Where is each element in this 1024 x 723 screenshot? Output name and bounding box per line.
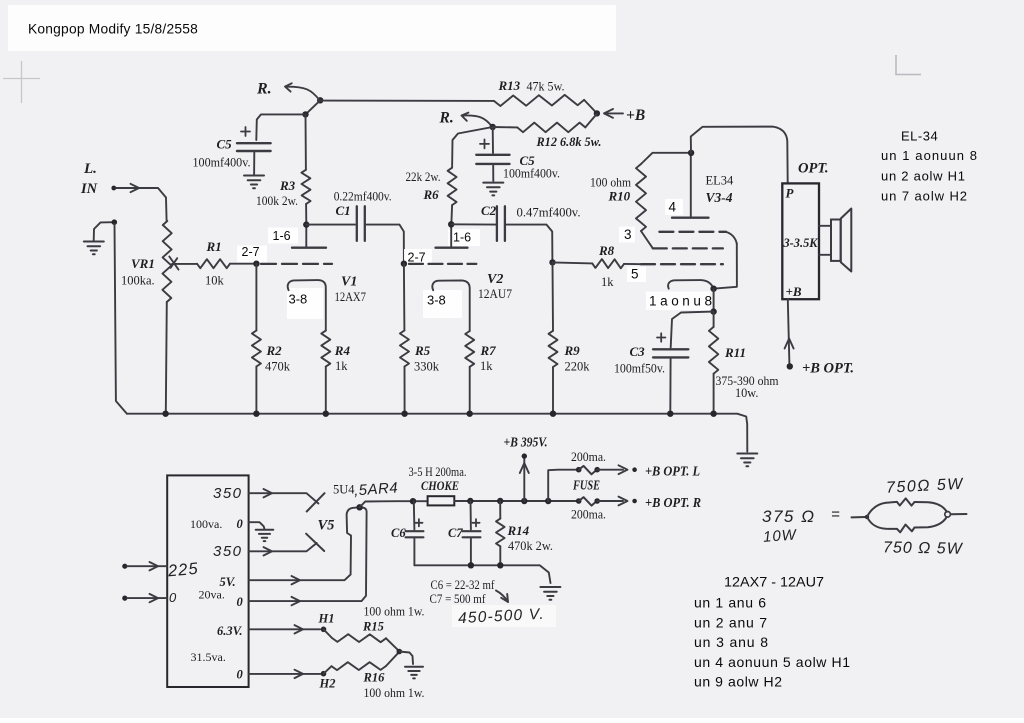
svg-text:1-6: 1-6	[273, 229, 291, 243]
svg-text:10k: 10k	[205, 274, 225, 288]
svg-text:1-6: 1-6	[453, 231, 471, 245]
wire R11 top lead	[713, 312, 715, 327]
svg-text:C3: C3	[630, 344, 646, 359]
wire C5a top	[256, 114, 303, 140]
node R14 bottom	[497, 562, 503, 568]
arrow 0 heater	[295, 670, 304, 678]
svg-text:12AX7 - 12AU7: 12AX7 - 12AU7	[724, 574, 824, 590]
corner mark top right	[896, 55, 921, 75]
V1 cathode	[288, 280, 326, 331]
svg-text:0: 0	[237, 595, 244, 609]
svg-text:R.: R.	[439, 110, 454, 127]
wire H2 to R16	[324, 666, 332, 674]
wire B+ to choke	[360, 501, 427, 507]
node heater ground junction	[397, 649, 403, 655]
svg-text:470k: 470k	[265, 360, 291, 374]
svg-text:350: 350	[213, 543, 243, 560]
node EL34 cathode	[710, 286, 716, 292]
wire 0 20va to B+ node	[249, 507, 367, 601]
wire R12 left lead	[493, 126, 518, 128]
svg-text:R11: R11	[724, 345, 746, 360]
plus C3	[657, 333, 665, 341]
resistor R15	[332, 634, 386, 642]
capacitor C2	[497, 206, 505, 241]
svg-text:EL34: EL34	[706, 174, 735, 188]
node fuse branch	[545, 498, 551, 504]
svg-text:V3-4: V3-4	[706, 190, 733, 205]
svg-text:OPT.: OPT.	[798, 161, 828, 177]
V5 plate stroke top	[307, 493, 325, 511]
node V1 plate	[303, 221, 309, 227]
svg-text:350: 350	[213, 485, 243, 502]
svg-text:3-8: 3-8	[289, 292, 308, 307]
svg-text:un 9 aolw H2: un 9 aolw H2	[694, 674, 782, 690]
svg-text:375 Ω: 375 Ω	[762, 507, 816, 526]
wire R14 bottom lead	[499, 546, 501, 565]
plus C5 right	[480, 139, 489, 148]
wire VR1 bottom lead	[166, 302, 167, 413]
svg-text:2-7: 2-7	[242, 245, 260, 259]
svg-text:10W: 10W	[762, 526, 798, 545]
svg-text:750 Ω 5W: 750 Ω 5W	[883, 539, 964, 557]
wire R6 top lead	[452, 127, 493, 168]
feedback arrow left head	[285, 83, 292, 91]
resistor R7	[465, 331, 474, 367]
V1 plate bar	[292, 247, 326, 249]
wire 0 100va	[249, 522, 265, 528]
svg-text:C7: C7	[448, 526, 463, 540]
wire C7 bottom lead	[470, 539, 472, 566]
wire EL34 plate to OPT	[691, 127, 788, 183]
resistor R9	[549, 331, 558, 367]
white patch 1-8	[646, 292, 710, 311]
svg-text:R10: R10	[608, 189, 631, 204]
rail junction VR1	[162, 411, 168, 417]
white patch 450-500	[452, 605, 556, 627]
wire R9 top lead	[552, 262, 555, 330]
rail junction C3	[667, 411, 673, 417]
white patch 1-6 V2	[448, 229, 480, 246]
svg-text:R12 6.8k 5w.: R12 6.8k 5w.	[536, 135, 602, 149]
node +B395 terminal	[522, 453, 527, 458]
arrow 5V winding	[292, 576, 301, 584]
fuse R right dot	[594, 498, 600, 504]
svg-text:R14: R14	[507, 523, 530, 538]
sketch top branch right	[915, 502, 947, 512]
wire V2 grid dashed	[409, 263, 476, 265]
V2 cathode	[432, 280, 469, 331]
resistor R2	[252, 331, 261, 367]
rail junction R2	[253, 411, 259, 417]
svg-text:100va.: 100va.	[190, 517, 222, 531]
wire R3 bottom lead	[305, 204, 307, 225]
resistor R8	[592, 259, 624, 268]
node V2 plate	[448, 221, 454, 227]
arrow 0 20va winding	[292, 597, 301, 605]
wire 0 heater	[249, 673, 321, 675]
svg-text:5U4: 5U4	[333, 483, 355, 497]
node EL34 plate/OPT	[688, 150, 694, 156]
node +B OPT terminal	[787, 363, 793, 369]
wire R15 to junction	[386, 638, 399, 651]
wire fuse branch riser	[548, 470, 576, 501]
node C7 bottom	[468, 562, 474, 568]
wire C1 to V2 grid	[367, 225, 404, 262]
wire +B395 riser	[523, 458, 525, 501]
svg-text:100 ohm 1w.: 100 ohm 1w.	[364, 605, 425, 619]
note arrow	[496, 591, 508, 603]
sketch bottom branch	[867, 517, 897, 529]
svg-text:C6 = 22-32 mf: C6 = 22-32 mf	[431, 578, 496, 592]
sketch resistor bottom	[897, 525, 915, 533]
wire V2 plate lead	[450, 226, 452, 247]
svg-text:100 ohm 1w.: 100 ohm 1w.	[364, 686, 425, 700]
arrow 350 bottom	[264, 547, 273, 555]
wire H1 to R15	[324, 629, 333, 638]
capacitor C3	[653, 349, 688, 357]
wire R4 bottom lead	[325, 367, 327, 413]
svg-text:0: 0	[237, 517, 244, 531]
speaker driver box	[831, 220, 841, 261]
svg-text:220k: 220k	[565, 360, 591, 374]
node +B OPT R terminal	[632, 499, 637, 504]
svg-text:R9: R9	[564, 343, 581, 358]
node R3/C5	[302, 111, 308, 117]
wire +B arrow tail	[607, 112, 623, 114]
rail junction R11	[710, 411, 716, 417]
plus C6	[415, 519, 422, 526]
EL34 grid1 right curve	[726, 232, 737, 244]
wire VR1 wiper	[172, 263, 197, 265]
svg-text:un 3 anu 8: un 3 anu 8	[694, 634, 768, 650]
wire C3 bottom lead	[669, 359, 671, 413]
wire input to VR1 top	[116, 188, 167, 221]
wire 6.3V	[249, 628, 320, 630]
svg-text:un 1 aonuun 8: un 1 aonuun 8	[881, 148, 977, 163]
arrow mains 0	[150, 594, 159, 602]
wire C5b top lead	[492, 127, 494, 153]
wire 5V to B+ node	[249, 507, 358, 580]
feedback arrow left	[286, 87, 320, 100]
svg-text:R4: R4	[334, 343, 351, 358]
node mains input 225	[122, 564, 127, 569]
svg-text:R.: R.	[256, 81, 272, 98]
svg-text:un 7 aolw H2: un 7 aolw H2	[881, 189, 967, 204]
bottom ground rail	[127, 414, 747, 452]
arrow +B OPT up	[785, 339, 794, 349]
wire V2 plate to C2	[451, 223, 495, 225]
svg-text:20va.: 20va.	[199, 588, 225, 602]
svg-text:R1: R1	[206, 239, 222, 254]
wire R16 to junction	[386, 652, 399, 666]
wire C6 top lead	[413, 501, 416, 529]
node R9/R8	[549, 259, 555, 265]
EL34 grid1 dashed	[659, 231, 726, 233]
node top rail left	[317, 97, 323, 103]
wire R11 bottom lead	[713, 374, 715, 413]
rail junction R7	[467, 411, 473, 417]
svg-text:100k 2w.: 100k 2w.	[256, 194, 298, 208]
wire choke to fuse rail	[454, 500, 576, 502]
wire C5b to ground	[492, 166, 494, 182]
wire 350 top to V5	[249, 493, 319, 503]
svg-text:+B: +B	[786, 284, 802, 299]
white patch 5	[627, 267, 646, 283]
svg-text:10w.: 10w.	[735, 386, 758, 400]
svg-text:+B OPT. R: +B OPT. R	[645, 495, 701, 510]
svg-text:H1: H1	[318, 612, 335, 626]
note arrow head	[501, 594, 508, 602]
white patch 4	[665, 199, 683, 215]
svg-text:VR1: VR1	[131, 256, 155, 271]
fuse R element	[579, 497, 597, 505]
arrow on input wire	[131, 184, 140, 192]
svg-text:0.47mf400v.: 0.47mf400v.	[517, 206, 581, 220]
node +B	[594, 110, 600, 116]
wire fuse R to terminal	[597, 500, 623, 502]
svg-text:3-5 H 200ma.: 3-5 H 200ma.	[409, 465, 467, 479]
white patch 2-7 V1	[237, 246, 267, 263]
wire R3 top lead	[305, 114, 307, 169]
svg-text:2-7: 2-7	[408, 251, 426, 265]
svg-text:330k: 330k	[414, 360, 440, 374]
svg-text:1k: 1k	[601, 275, 614, 289]
wire cathode down	[713, 289, 715, 312]
white patch 3	[619, 227, 635, 243]
svg-text:un 2 anu 7: un 2 anu 7	[694, 614, 767, 630]
wire R8 left lead	[553, 262, 593, 263]
svg-text:+B 395V.: +B 395V.	[504, 435, 548, 450]
wire R8 to EL34 grid	[624, 263, 641, 265]
wire R2 bottom lead	[255, 367, 257, 414]
arrow 6.3V	[295, 625, 304, 633]
arrow +B395 up	[520, 463, 529, 473]
wire V1 grid resistor lead	[255, 264, 257, 331]
resistor R3	[301, 170, 310, 204]
EL34 grid2 dashed	[653, 247, 723, 249]
ground transformer CT	[256, 530, 274, 541]
svg-text:1k: 1k	[335, 359, 348, 373]
svg-text:V1: V1	[341, 275, 357, 290]
resistor R5	[400, 331, 409, 367]
ground input	[84, 242, 104, 255]
wire V1 grid dashed	[261, 263, 332, 265]
feedback arrow right	[462, 115, 492, 126]
svg-text:12AX7: 12AX7	[335, 290, 367, 304]
fuse L element	[579, 466, 597, 474]
EL34 plate bar	[672, 217, 709, 219]
svg-text:V5: V5	[318, 518, 335, 534]
capacitor C5 right	[476, 155, 509, 164]
speaker horn	[841, 209, 852, 272]
node V2 grid	[401, 261, 407, 267]
wire C7 top lead	[470, 501, 472, 530]
plus C7	[472, 519, 479, 526]
V2 plate bar	[436, 247, 468, 249]
ground filter	[540, 587, 560, 600]
wire V1 plate to C1	[306, 224, 355, 226]
wire R5 bottom lead	[404, 367, 406, 414]
wire R6 bottom lead	[450, 205, 453, 223]
node rectifier output	[356, 504, 362, 510]
wire R1 to V1 grid	[230, 263, 256, 265]
svg-text:R13: R13	[498, 78, 521, 93]
svg-text:470k 2w.: 470k 2w.	[508, 539, 553, 553]
plus C5 left	[241, 127, 250, 136]
rail junction R4	[323, 411, 329, 417]
white patch 2-7 V2	[404, 249, 432, 265]
wire left vertical to bottom rail	[115, 224, 127, 414]
svg-text:Kongpop Modify 15/8/2558: Kongpop Modify 15/8/2558	[28, 22, 198, 37]
resistor R13	[494, 95, 584, 106]
node R14 top	[497, 498, 503, 504]
svg-text:5: 5	[631, 267, 639, 282]
arrow +B	[604, 109, 613, 118]
svg-text:C6: C6	[391, 526, 406, 540]
svg-text:,5AR4: ,5AR4	[353, 479, 398, 499]
wire R7 bottom lead	[469, 367, 471, 413]
capacitor C1	[357, 206, 365, 241]
resistor R11	[709, 327, 718, 374]
svg-text:+B OPT.: +B OPT.	[802, 361, 854, 377]
svg-text:un 4 aonuun 5 aolw H1: un 4 aonuun 5 aolw H1	[694, 654, 850, 670]
EL34 grid3 dashed	[641, 263, 723, 265]
white patch 3-8 V1	[287, 288, 323, 319]
svg-text:R5: R5	[414, 343, 431, 358]
sketch right lead	[951, 513, 967, 515]
svg-text:100 ohm: 100 ohm	[590, 176, 631, 190]
wire mains 225	[127, 565, 167, 567]
ground heater	[405, 667, 423, 679]
svg-text:EL-34: EL-34	[901, 129, 938, 144]
ground main rail	[737, 454, 757, 467]
sketch left lead	[852, 516, 867, 518]
svg-text:R3: R3	[279, 178, 296, 193]
white scan band top	[8, 5, 616, 51]
V5 plate stroke bottom	[306, 534, 324, 551]
resistor R16	[332, 662, 387, 670]
svg-text:R8: R8	[598, 243, 615, 258]
capacitor C7	[463, 531, 481, 537]
wire mains 0	[127, 597, 167, 599]
resistor R12	[517, 123, 585, 133]
transformer T1 box	[167, 475, 248, 687]
wire top rail	[320, 100, 494, 102]
rail junction R9	[550, 411, 556, 417]
svg-text:C7 = 500 mf: C7 = 500 mf	[430, 592, 487, 606]
svg-text:0: 0	[169, 590, 177, 605]
capacitor C6	[406, 531, 424, 537]
svg-text:225: 225	[166, 560, 199, 581]
sketch top branch	[867, 502, 897, 517]
svg-text:3-3.5K: 3-3.5K	[782, 236, 818, 250]
wire R10 to grid2	[641, 231, 653, 248]
svg-text:1k: 1k	[480, 359, 493, 373]
wire C2 to R9 node	[507, 225, 553, 261]
svg-text:un 1 anu 6: un 1 anu 6	[694, 595, 766, 611]
svg-text:6.3V.: 6.3V.	[217, 624, 243, 638]
node mains input 0	[122, 596, 127, 601]
feedback arrow right head	[462, 113, 469, 121]
node cathode C3/R11	[710, 308, 716, 314]
svg-text:3: 3	[624, 227, 632, 242]
svg-text:0: 0	[237, 668, 244, 682]
wire R5 top lead	[403, 264, 406, 331]
rail junction R5	[401, 411, 407, 417]
arrow 350 top	[264, 489, 273, 497]
ground C5 right	[483, 183, 503, 196]
resistor R6	[448, 168, 457, 205]
VR1 wiper arrow head	[169, 257, 178, 270]
svg-text:0.22mf400v.: 0.22mf400v.	[334, 189, 392, 203]
wire OPT to speaker top	[819, 225, 831, 227]
ground C5 left	[244, 176, 264, 189]
svg-text:R16: R16	[363, 671, 386, 685]
svg-text:C5: C5	[217, 137, 233, 152]
svg-text:FUSE: FUSE	[572, 478, 600, 493]
svg-text:CHOKE: CHOKE	[421, 478, 459, 493]
choke L1 box	[428, 496, 455, 505]
white patch 1-6 V1	[268, 228, 298, 244]
svg-text:100ka.: 100ka.	[121, 274, 155, 288]
wire OPT to speaker bottom	[819, 254, 831, 256]
svg-text:100mf50v.: 100mf50v.	[614, 362, 665, 376]
wire R12 to +B node	[585, 114, 597, 128]
svg-text:=: =	[831, 506, 840, 523]
node +B395 junction	[521, 498, 527, 504]
transformer OPT box	[782, 183, 819, 299]
wire OPT +B lead	[788, 299, 790, 364]
svg-text:4: 4	[669, 200, 677, 215]
node input ground junction	[112, 219, 118, 225]
fuse L right dot	[594, 467, 600, 473]
svg-text:12AU7: 12AU7	[478, 287, 512, 301]
node H1	[321, 627, 327, 633]
node input jack	[111, 186, 116, 191]
wire heater junction to ground	[399, 652, 413, 665]
arrow +B OPT L	[619, 465, 628, 474]
node V1 grid	[253, 261, 259, 267]
node +B OPT L terminal	[632, 467, 637, 472]
sketch right node	[945, 512, 951, 518]
wire C3 top	[671, 312, 714, 348]
sketch bottom branch right	[915, 517, 947, 527]
capacitor C5 left	[237, 143, 271, 151]
EL34 envelope right	[715, 244, 737, 289]
svg-text:31.5va.: 31.5va.	[191, 650, 226, 664]
svg-text:C1: C1	[336, 203, 351, 218]
wire C5a to ground	[253, 153, 255, 175]
svg-text:C2: C2	[481, 203, 497, 218]
svg-text:R7: R7	[480, 343, 497, 358]
svg-text:22k 2w.: 22k 2w.	[406, 170, 441, 184]
sketch left node	[865, 515, 869, 519]
registration cross	[3, 61, 40, 103]
svg-text:200ma.: 200ma.	[571, 508, 606, 522]
wire R13 to +B node	[584, 100, 597, 113]
svg-text:IN: IN	[80, 181, 98, 197]
resistor R1	[197, 259, 230, 268]
wire fuse L to terminal	[597, 469, 623, 471]
svg-text:47k 5w.: 47k 5w.	[527, 80, 565, 94]
svg-text:+B OPT. L: +B OPT. L	[645, 464, 700, 479]
svg-text:un 2 aolw H1: un 2 aolw H1	[881, 168, 965, 183]
wire R10 top lead	[641, 153, 691, 164]
wire C6 bottom lead	[413, 539, 415, 566]
filter ground wire	[414, 565, 550, 583]
svg-text:3-8: 3-8	[427, 293, 446, 308]
sketch resistor top	[897, 498, 915, 505]
